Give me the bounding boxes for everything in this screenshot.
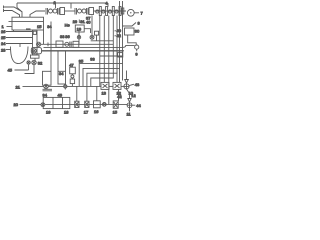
staircase A [79,64,122,87]
pump P7 [127,9,134,16]
node 8 [123,23,137,27]
wire link2 [121,85,124,87]
wire box16 feed [96,86,98,100]
trap box a [43,71,52,85]
box 16 [94,101,101,108]
svg-text:26: 26 [1,29,6,34]
valve e [44,84,48,88]
valve d2 [91,16,93,36]
valve box u1 [75,101,79,107]
wire box12b down [118,89,120,101]
svg-text:34: 34 [59,71,64,76]
svg-text:25: 25 [1,35,6,40]
valve box u2 [85,101,89,107]
wire line1 [65,10,76,12]
box 33 [56,41,63,47]
wire double [43,89,53,91]
trap box b [58,71,66,84]
chamber 1 [12,17,44,30]
svg-text:29: 29 [73,19,78,24]
valve circle a [37,42,41,46]
valve 44 [127,103,132,108]
crucible [11,47,29,64]
box 47c [70,79,74,84]
valve 43 [124,84,129,89]
mid line [48,85,101,87]
valve 9 [135,45,139,49]
box 30 [125,28,135,35]
wire valve43 drop [127,89,130,94]
junction valve f [64,85,67,88]
bottom line [45,103,127,105]
svg-text:42: 42 [117,94,122,99]
svg-text:46: 46 [58,92,63,97]
svg-text:8: 8 [138,21,141,26]
valve d [78,31,80,36]
valve cluster V2 [75,8,77,15]
svg-text:23: 23 [1,48,6,53]
svg-text:19: 19 [46,110,51,115]
box 12b [113,82,121,89]
MFC drop 4 [116,72,118,83]
svg-text:45: 45 [8,68,13,73]
box 38 [95,31,99,35]
staircase C [87,16,117,102]
MFC drop 1 [99,16,101,87]
wire cluster to chamber [30,11,45,17]
svg-text:36: 36 [65,34,70,39]
MFC bank [96,10,126,12]
wire valve32 drop [25,65,35,74]
box 36c [73,41,79,47]
svg-text:11: 11 [127,111,132,116]
wire box30 drop [128,35,137,45]
main line D [100,55,123,57]
staircase D [91,16,114,87]
svg-text:31: 31 [80,19,85,24]
valve j [102,103,106,107]
svg-text:24: 24 [1,41,6,46]
wire line2 [94,10,97,12]
svg-text:17: 17 [84,109,89,114]
svg-text:33: 33 [90,57,95,62]
svg-text:47: 47 [69,62,74,67]
svg-text:15: 15 [113,110,118,115]
box 19 [75,25,84,32]
svg-text:18: 18 [64,110,69,115]
node 7 [134,12,139,14]
svg-text:44: 44 [136,103,141,108]
staircase B [83,68,120,86]
wire top rail [17,2,108,4]
svg-text:30: 30 [135,29,140,34]
wire input A [4,6,23,18]
main line B thick [42,50,124,52]
node 4 [107,3,109,7]
svg-text:19: 19 [77,27,82,32]
svg-text:21: 21 [16,84,21,89]
triangle valve i [128,99,131,103]
main line A [41,43,114,45]
svg-text:20: 20 [14,102,19,107]
valve c [65,42,69,46]
box 13 [101,82,109,89]
svg-text:34: 34 [47,24,52,29]
wire y40 [91,40,114,42]
svg-text:43: 43 [135,82,140,87]
svg-text:13: 13 [102,91,107,96]
wire rail mid drop [70,3,72,9]
svg-text:He: He [65,23,71,28]
wire rail left drop [17,3,22,12]
svg-text:16: 16 [94,109,99,114]
wire input B [4,9,20,17]
wire link [109,85,113,87]
svg-text:40: 40 [86,19,91,24]
svg-text:32: 32 [38,60,43,65]
valve pair 32 [34,58,36,60]
valve circle b [31,48,41,54]
svg-text:12: 12 [131,93,136,98]
wire chamber drop [13,30,15,32]
svg-text:7: 7 [141,10,144,15]
box 15 [113,101,118,108]
valve 47b [71,75,74,78]
svg-text:34: 34 [43,92,48,97]
valve cluster V1 [46,8,48,15]
junction cross [47,43,49,47]
valve box p [118,53,123,57]
main line C [44,46,123,48]
vert right pair [120,1,123,82]
box 47 [70,67,76,74]
triangle valve g [125,80,129,84]
manifold 14 [33,30,38,55]
svg-text:9: 9 [135,52,138,57]
svg-text:35: 35 [79,58,84,63]
svg-text:15: 15 [37,24,42,29]
valve h [41,103,45,107]
furnace boxes k [43,97,70,108]
MFC drop 2 [103,16,105,83]
node 2 [55,3,57,8]
MFC drop 3 [108,16,110,105]
